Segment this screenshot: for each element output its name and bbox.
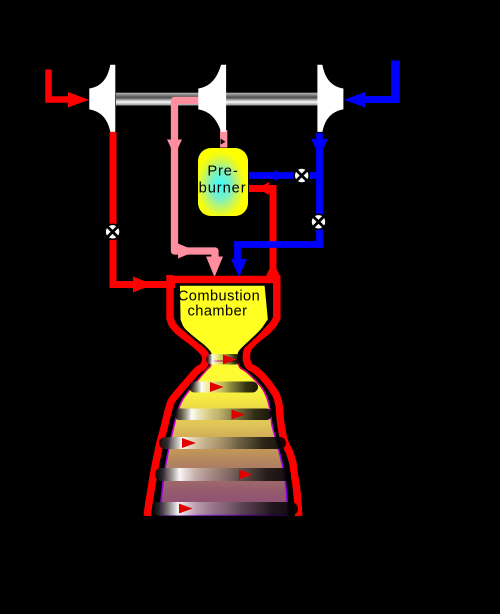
svg-text:Combustion: Combustion <box>178 288 260 304</box>
svg-text:Pre-: Pre- <box>207 164 238 180</box>
svg-text:chamber: chamber <box>188 303 248 319</box>
svg-text:burner: burner <box>199 180 247 196</box>
